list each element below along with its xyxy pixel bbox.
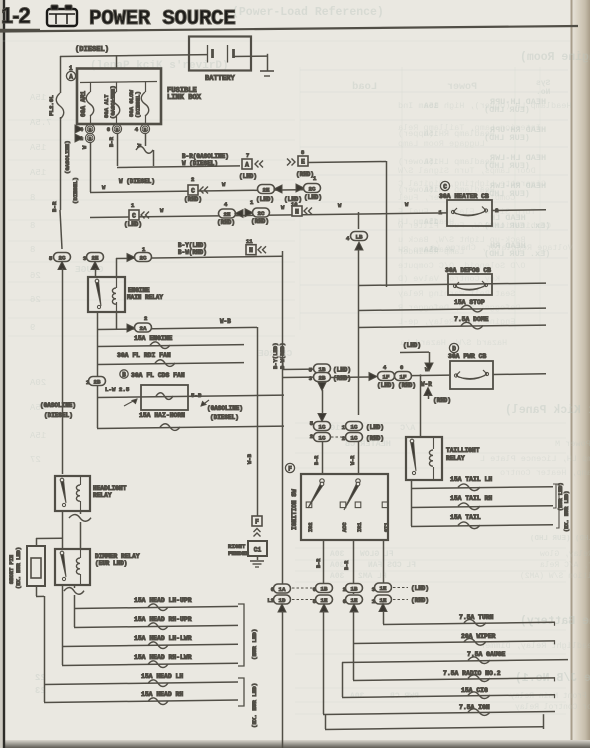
svg-text:RELAY: RELAY — [446, 455, 465, 462]
svg-text:(LHD): (LHD) — [377, 382, 395, 389]
svg-text:N: N — [249, 247, 253, 254]
svg-text:(GASOLINE): (GASOLINE) — [64, 140, 71, 174]
svg-text:(DIESEL): (DIESEL) — [72, 177, 79, 204]
svg-text:Cooler Fan Motor, A/C Rela: Cooler Fan Motor, A/C Rela — [540, 561, 590, 570]
svg-text:15A HEAD RH-UPR: 15A HEAD RH-UPR — [134, 616, 192, 623]
svg-text:B-R: B-R — [344, 560, 350, 570]
svg-text:26: 26 — [30, 271, 41, 281]
svg-text:2B: 2B — [94, 378, 101, 385]
svg-text:26: 26 — [30, 295, 41, 305]
svg-text:7.5A DOME: 7.5A DOME — [454, 316, 489, 323]
svg-text:BATTERY: BATTERY — [205, 75, 236, 83]
svg-text:FL AM2: FL AM2 — [358, 572, 387, 581]
svg-text:15A: 15A — [29, 143, 46, 153]
svg-text:IGNITION SW: IGNITION SW — [291, 489, 298, 530]
svg-text:B-W(RHD): B-W(RHD) — [279, 343, 286, 369]
svg-text:2: 2 — [342, 435, 345, 442]
svg-text:2E: 2E — [263, 186, 270, 193]
svg-text:(RHD): (RHD) — [251, 218, 269, 225]
svg-text:15A HEAD RH-LWR: 15A HEAD RH-LWR — [134, 654, 192, 661]
svg-text:SHORT PIN: SHORT PIN — [9, 555, 15, 584]
svg-text:(RHD): (RHD) — [366, 435, 384, 442]
svg-text:6: 6 — [400, 364, 403, 371]
svg-text:2C: 2C — [59, 254, 66, 261]
svg-text:2C: 2C — [309, 185, 316, 192]
svg-text:30A DEFOG CB: 30A DEFOG CB — [445, 267, 491, 274]
svg-text:1C: 1C — [351, 434, 358, 441]
svg-text:HEADLIGHT: HEADLIGHT — [93, 485, 127, 492]
svg-text:(LHD): (LHD) — [256, 196, 274, 203]
svg-text:Door Control Relay: Door Control Relay — [515, 703, 590, 712]
svg-text:A/C: A/C — [400, 423, 415, 433]
svg-text:1C: 1C — [319, 434, 326, 441]
svg-text:20A: 20A — [29, 378, 46, 388]
svg-text:FL2.0L: FL2.0L — [48, 95, 55, 116]
svg-text:30A PWR CB: 30A PWR CB — [448, 353, 487, 360]
svg-text:15A: 15A — [29, 168, 46, 178]
svg-text:C: C — [443, 183, 447, 190]
svg-text:C: C — [132, 212, 136, 219]
svg-text:7.5A: 7.5A — [29, 118, 51, 128]
svg-text:(GASOLINE): (GASOLINE) — [40, 402, 76, 409]
svg-text:FENDER: FENDER — [228, 550, 249, 557]
svg-text:7.5A IGN: 7.5A IGN — [459, 704, 490, 711]
svg-text:(RHD): (RHD) — [333, 375, 351, 382]
svg-text:8: 8 — [30, 221, 35, 231]
svg-text:W (DIESEL): W (DIESEL) — [119, 178, 155, 185]
svg-text:1E: 1E — [380, 597, 387, 604]
svg-text:Sys: Sys — [536, 79, 551, 88]
svg-text:(LHD): (LHD) — [239, 173, 257, 180]
svg-text:15A: 15A — [29, 431, 46, 441]
svg-text:15A: 15A — [29, 93, 46, 103]
svg-text:15A TAIL: 15A TAIL — [450, 514, 481, 521]
svg-text:15A ENGINE: 15A ENGINE — [134, 335, 173, 342]
svg-text:B-Y(LHD): B-Y(LHD) — [178, 242, 207, 249]
svg-text:9: 9 — [30, 323, 35, 333]
svg-text:(LHD): (LHD) — [366, 424, 384, 431]
svg-text:Headlamp LH, Licence Plate L: Headlamp LH, Licence Plate L — [480, 454, 590, 464]
svg-text:ENGINE: ENGINE — [128, 287, 150, 294]
svg-text:15A HEAD LH-LWR: 15A HEAD LH-LWR — [134, 635, 192, 642]
svg-text:1C: 1C — [351, 423, 358, 430]
svg-text:2C: 2C — [258, 210, 265, 217]
svg-text:RELAY: RELAY — [93, 492, 112, 499]
svg-text:(DIESEL): (DIESEL) — [135, 91, 142, 118]
svg-text:2E: 2E — [92, 254, 99, 261]
svg-text:(RHD): (RHD) — [398, 382, 416, 389]
svg-text:RIGHT: RIGHT — [228, 543, 246, 550]
svg-text:7: 7 — [246, 152, 249, 159]
svg-text:(DIESEL): (DIESEL) — [210, 414, 239, 421]
svg-text:(RHD): (RHD) — [296, 171, 314, 178]
svg-text:15A HAZ-HORN: 15A HAZ-HORN — [139, 412, 185, 419]
svg-text:30A: 30A — [330, 561, 345, 570]
svg-text:6: 6 — [107, 126, 110, 133]
svg-text:27: 27 — [30, 455, 41, 465]
svg-text:W-B: W-B — [246, 453, 253, 464]
svg-text:1E: 1E — [351, 597, 358, 604]
svg-text:DIMMER RELAY: DIMMER RELAY — [95, 553, 140, 560]
svg-text:1D: 1D — [279, 597, 286, 604]
svg-text:7.5A TURN: 7.5A TURN — [459, 614, 494, 621]
svg-text:IG1: IG1 — [357, 522, 363, 532]
svg-text:Interior Lamp, Taillamp Rela: Interior Lamp, Taillamp Rela — [398, 123, 541, 133]
svg-text:C1: C1 — [254, 547, 262, 554]
svg-text:E: E — [301, 158, 305, 165]
svg-text:(RHD): (RHD) — [217, 219, 235, 226]
svg-text:Glow Plug Main Relay, Glow: Glow Plug Main Relay, Glow — [540, 550, 590, 559]
svg-text:FL GLOW: FL GLOW — [360, 550, 394, 559]
svg-text:Luggage Room Lamp: Luggage Room Lamp — [398, 139, 485, 149]
svg-text:Headlight Relay, Dimmer: Headlight Relay, Dimmer — [480, 641, 590, 651]
svg-text:15A HEAD LH: 15A HEAD LH — [141, 673, 183, 680]
svg-text:Front Main Relay: Front Main Relay — [510, 692, 587, 701]
svg-text:15A TAIL LH: 15A TAIL LH — [450, 476, 492, 483]
svg-text:(DIESEL): (DIESEL) — [44, 412, 73, 419]
svg-text:B: B — [144, 127, 147, 133]
svg-text:(EUR LHD): (EUR LHD) — [95, 560, 127, 567]
svg-text:B-R: B-R — [108, 136, 115, 147]
svg-text:ACC: ACC — [342, 522, 348, 532]
svg-text:1E: 1E — [321, 597, 328, 604]
svg-text:(LHD): (LHD) — [304, 194, 322, 201]
svg-text:Load: Load — [352, 81, 377, 93]
svg-text:W (DIESEL): W (DIESEL) — [182, 160, 218, 167]
svg-text:MAIN RELAY: MAIN RELAY — [127, 294, 163, 301]
svg-text:30A: 30A — [330, 572, 345, 581]
svg-text:No.: No. — [536, 88, 550, 97]
svg-text:1-2: 1-2 — [1, 3, 31, 28]
svg-text:Voltage Regulator, Charge La: Voltage Regulator, Charge La — [430, 243, 573, 253]
svg-text:W-B: W-B — [220, 318, 231, 325]
svg-text:B: B — [122, 371, 126, 378]
svg-text:2A: 2A — [140, 325, 147, 332]
svg-text:1: 1 — [439, 209, 443, 216]
svg-text:8: 8 — [30, 245, 35, 255]
svg-text:30A FL CDS FAN: 30A FL CDS FAN — [131, 372, 185, 379]
svg-text:1E: 1E — [380, 585, 387, 592]
svg-text:C: C — [191, 187, 195, 194]
svg-text:LB: LB — [356, 233, 363, 240]
svg-text:1A: 1A — [279, 586, 286, 593]
svg-text:1C: 1C — [319, 423, 326, 430]
svg-text:ST1: ST1 — [384, 522, 390, 532]
svg-text:(DIESEL): (DIESEL) — [75, 46, 109, 54]
svg-text:15A HEAD RH: 15A HEAD RH — [141, 691, 183, 698]
svg-text:B-Y(LHD): B-Y(LHD) — [272, 343, 279, 369]
svg-text:15A STOP: 15A STOP — [454, 299, 485, 306]
svg-text:B-R(GASOLINE): B-R(GASOLINE) — [182, 153, 229, 160]
svg-text:30A HEATER CB: 30A HEATER CB — [439, 193, 489, 200]
svg-text:W-R: W-R — [421, 381, 432, 388]
svg-text:30A: 30A — [330, 550, 345, 559]
svg-text:Heater Relay, Power M: Heater Relay, Power M — [555, 439, 590, 449]
svg-text:(LHD): (LHD) — [333, 367, 351, 374]
svg-text:(GASOLINE): (GASOLINE) — [207, 405, 243, 412]
svg-text:A: A — [245, 161, 249, 168]
svg-text:L-W 2.5: L-W 2.5 — [105, 386, 130, 393]
svg-text:B: B — [89, 127, 92, 133]
svg-text:W-R: W-R — [350, 455, 356, 465]
svg-text:B-R: B-R — [51, 201, 58, 212]
svg-text:D: D — [452, 345, 456, 352]
svg-text:30A FL RDI FAN: 30A FL RDI FAN — [117, 352, 171, 359]
svg-text:1B: 1B — [351, 585, 358, 592]
svg-text:F: F — [255, 518, 259, 525]
svg-text:(LHD): (LHD) — [411, 585, 429, 592]
svg-text:IG2: IG2 — [308, 522, 314, 532]
svg-text:15A CIG: 15A CIG — [461, 687, 488, 694]
svg-text:(RHD): (RHD) — [411, 597, 429, 604]
svg-text:LINK BOX: LINK BOX — [167, 94, 202, 102]
svg-text:2: 2 — [310, 433, 313, 440]
svg-text:FL CDS FAN: FL CDS FAN — [368, 561, 416, 570]
svg-text:POWER SOURCE: POWER SOURCE — [89, 8, 235, 31]
svg-text:60A AM1: 60A AM1 — [80, 91, 87, 117]
svg-text:2C: 2C — [140, 254, 147, 261]
svg-text:8: 8 — [30, 193, 35, 203]
svg-text:(EX. EUR LHD): (EX. EUR LHD) — [564, 491, 570, 532]
svg-text:Ignition S/W (AM2): Ignition S/W (AM2) — [520, 572, 590, 581]
svg-text:2: 2 — [191, 176, 194, 183]
svg-text:Door Lamps, Turn Signal S/W: Door Lamps, Turn Signal S/W — [397, 166, 536, 176]
svg-text:Fusible Link (Near the Battery: Fusible Link (Near the Battery) — [520, 615, 590, 628]
svg-text:2B: 2B — [319, 374, 326, 381]
svg-text:15A TAIL RH: 15A TAIL RH — [450, 495, 492, 502]
svg-text:J/B No.4 (Assistant Kick Panel: J/B No.4 (Assistant Kick Panel) — [505, 404, 590, 417]
svg-text:B: B — [89, 136, 92, 142]
svg-text:Cigarette Lighting, Digital C: Cigarette Lighting, Digital C — [398, 179, 546, 189]
svg-text:B-W(RHD): B-W(RHD) — [178, 249, 207, 256]
svg-text:(EX. EUR LHD): (EX. EUR LHD) — [251, 683, 258, 728]
svg-text:1F: 1F — [383, 373, 390, 380]
svg-text:5-B: 5-B — [191, 392, 202, 399]
svg-text:(RHD): (RHD) — [184, 196, 202, 203]
svg-text:(RHD): (RHD) — [433, 397, 451, 404]
svg-text:A: A — [69, 73, 73, 80]
svg-text:(LHD): (LHD) — [403, 342, 421, 349]
svg-text:(EX. EUR LHD) (EUR LHD): (EX. EUR LHD) (EUR LHD) — [530, 535, 590, 543]
svg-text:(Related) Lamp, Heater Contro: (Related) Lamp, Heater Contro — [500, 468, 590, 478]
svg-text:2E: 2E — [224, 211, 231, 218]
svg-text:N: N — [295, 208, 299, 215]
svg-text:2: 2 — [144, 315, 147, 322]
svg-text:B-R: B-R — [314, 455, 320, 465]
svg-text:1B: 1B — [321, 585, 328, 592]
svg-text:Headlamp LH (Upper), High Beam: Headlamp LH (Upper), High Beam Ind — [398, 101, 571, 111]
svg-text:Key Control Valve (D: Key Control Valve (D — [398, 274, 500, 284]
svg-text:(EX. EUR LHD): (EX. EUR LHD) — [16, 547, 22, 589]
svg-text:(GASOLINE): (GASOLINE) — [110, 85, 117, 119]
svg-text:B-R: B-R — [316, 558, 322, 568]
svg-text:(LHD): (LHD) — [124, 221, 142, 228]
svg-text:(EUR LHD): (EUR LHD) — [251, 629, 258, 660]
svg-text:J/B No.2 (Engine Room): J/B No.2 (Engine Room) — [520, 51, 590, 64]
svg-text:F: F — [288, 465, 292, 472]
svg-text:Seat Belt Warning Relay: Seat Belt Warning Relay — [398, 289, 515, 299]
svg-text:B: B — [116, 127, 119, 133]
svg-text:TAILLIGHT: TAILLIGHT — [446, 447, 480, 454]
svg-text:(Power-Load Reference): (Power-Load Reference) — [232, 6, 384, 19]
svg-text:1F: 1F — [400, 373, 407, 380]
svg-text:15A HEAD LH-UPR: 15A HEAD LH-UPR — [134, 597, 192, 604]
svg-text:Power: Power — [447, 82, 477, 93]
